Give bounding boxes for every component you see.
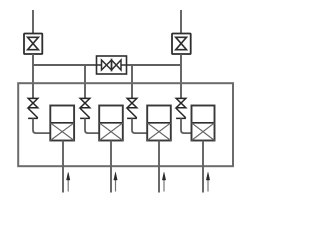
double valve DV1 (boxed double bowtie) [97, 56, 127, 74]
valve V2 (boxed hourglass, top right) [172, 34, 191, 55]
wire SV4 to unit U4 [181, 118, 192, 133]
wire U2 outlet [110, 141, 112, 193]
wire V2 to spring valve SV4 [180, 54, 182, 98]
wire top stub to valve V2 [180, 10, 182, 33]
unit U3 (burner box) [147, 106, 171, 141]
spring valve SV2 [80, 98, 90, 118]
wire manifold left segment [33, 64, 97, 66]
wire SV2 to unit U2 [85, 118, 99, 133]
flow arrow A2 [114, 172, 117, 191]
flow arrow A1 [67, 172, 70, 191]
wire U3 outlet [158, 141, 160, 193]
wire manifold right segment [127, 64, 182, 66]
spring valve SV3 [127, 98, 137, 118]
spring valve SV4 [176, 98, 186, 118]
wire SV1 to unit U1 [33, 118, 50, 133]
unit U2 (burner box) [99, 106, 123, 141]
unit U1 (burner box) [50, 106, 74, 141]
wire U1 outlet [62, 141, 64, 193]
enclosure box [18, 83, 233, 166]
flow arrow A3 [162, 172, 165, 191]
wire U4 outlet [202, 141, 204, 193]
wire SV3 to unit U3 [132, 118, 147, 133]
wire drop to spring valve SV2 [84, 65, 86, 98]
wire V1 to spring valve SV1 [32, 54, 34, 98]
unit U4 (burner box) [192, 106, 215, 141]
spring valve SV1 [28, 98, 38, 118]
flow arrow A4 [206, 172, 209, 191]
valve V1 (boxed hourglass, top left) [24, 34, 42, 55]
wire top stub to valve V1 [32, 10, 34, 33]
wire drop to spring valve SV3 [131, 65, 133, 98]
